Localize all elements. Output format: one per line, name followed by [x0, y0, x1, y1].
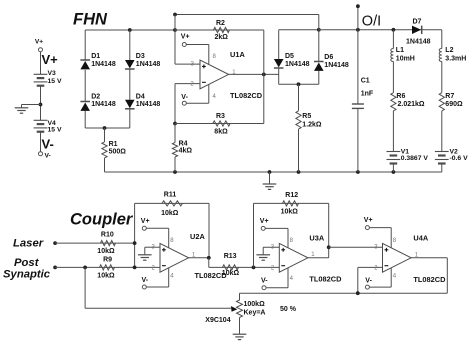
label O/I: [362, 13, 381, 29]
inductor L2 3.3mH: [439, 30, 466, 93]
pin 1 U2A: [192, 252, 196, 258]
wire V+ terminal to V3: [40, 52, 42, 75]
svg-text:1N4148: 1N4148: [91, 61, 116, 68]
resistor R3 8k feedback: [173, 113, 264, 135]
svg-text:V+: V+: [35, 39, 43, 46]
svg-text:O/I: O/I: [362, 13, 381, 29]
svg-text:4kΩ: 4kΩ: [179, 148, 193, 155]
wire U1A output node: [229, 30, 279, 124]
diode D1 1N4148: [80, 53, 115, 69]
svg-text:TL082CD: TL082CD: [309, 275, 342, 284]
pin 8 U3A: [290, 238, 294, 244]
wire D5-D6 box bottom: [279, 82, 319, 86]
node V- U4A: [365, 268, 391, 289]
pin 1 U4A: [415, 252, 419, 258]
pin 8 U2A: [170, 238, 174, 244]
svg-text:V-: V-: [142, 277, 149, 284]
wire V4 to V- terminal: [40, 132, 42, 152]
svg-text:V+: V+: [364, 217, 373, 224]
battery V4 15V: [34, 120, 62, 134]
pin 3 U2A: [152, 244, 156, 250]
wire U4A output feedback: [240, 258, 448, 295]
svg-text:U4A: U4A: [413, 233, 428, 242]
wire U2A + input: [145, 247, 160, 254]
resistor R2 2k feedback: [175, 20, 264, 41]
svg-text:1.2kΩ: 1.2kΩ: [302, 121, 322, 128]
node V- U1A: [181, 84, 209, 105]
pin 4 U2A: [170, 274, 174, 280]
svg-text:R12: R12: [285, 192, 298, 199]
wire D5-D6 box top: [279, 15, 321, 32]
svg-text:R3: R3: [216, 113, 225, 120]
inductor L1 10mH: [391, 30, 415, 93]
svg-text:50 %: 50 %: [280, 306, 297, 313]
node V+ U1A: [181, 34, 209, 65]
pin 3 U3A: [271, 244, 275, 250]
node V+ U2A: [141, 218, 169, 248]
resistor R12 10k feedback: [254, 192, 329, 267]
svg-text:C1: C1: [361, 78, 370, 85]
svg-text:D1: D1: [91, 53, 100, 60]
svg-text:1nF: 1nF: [361, 91, 374, 98]
diode D7 1N4148: [406, 18, 431, 45]
pin 1 U1A: [232, 70, 236, 76]
svg-text:D4: D4: [136, 93, 145, 100]
wire O/I top rail: [319, 28, 442, 32]
svg-text:10kΩ: 10kΩ: [97, 273, 115, 280]
svg-text:Laser: Laser: [13, 237, 44, 249]
wire D6 branch: [318, 30, 320, 85]
svg-text:U1A: U1A: [230, 50, 245, 59]
wire bottom edge of diode box: [85, 126, 130, 130]
ground (U3A + input): [256, 255, 270, 260]
resistor R6 2.021k: [391, 93, 425, 152]
svg-text:D2: D2: [91, 93, 100, 100]
svg-text:V-: V-: [181, 94, 188, 101]
pin 2 U1A: [190, 81, 194, 87]
wire U4A - input: [358, 267, 383, 293]
svg-text:8kΩ: 8kΩ: [214, 128, 228, 135]
svg-text:0.3867 V: 0.3867 V: [401, 155, 429, 162]
svg-text:V+: V+: [42, 52, 59, 67]
svg-text:1N4148: 1N4148: [91, 101, 116, 108]
svg-text:V-: V-: [261, 278, 268, 285]
svg-text:U2A: U2A: [190, 232, 205, 241]
svg-text:R5: R5: [302, 113, 311, 120]
node O/I stub: [356, 4, 360, 30]
potentiometer X9C104 100k: [205, 293, 296, 334]
svg-text:R13: R13: [224, 253, 237, 260]
resistor R4 4k: [172, 124, 192, 173]
pin 2 U3A: [271, 265, 275, 271]
op-amp U3A TL082CD: [279, 233, 342, 283]
node Laser input: [53, 241, 57, 245]
wire FHN ground rail: [105, 170, 442, 174]
svg-text:R7: R7: [445, 93, 454, 100]
resistor R13 10k: [209, 253, 279, 277]
battery V2 -0.6V: [435, 148, 468, 172]
op-amp U1A TL082CD: [200, 50, 263, 100]
svg-text:U3A: U3A: [309, 233, 324, 242]
pin 3 U1A: [191, 62, 195, 68]
svg-text:V+: V+: [260, 218, 269, 225]
node Post Synaptic input: [53, 266, 57, 270]
svg-text:10kΩ: 10kΩ: [161, 210, 179, 217]
diode D6 1N4148: [314, 54, 349, 71]
svg-text:R4: R4: [179, 140, 188, 147]
ground (U2A + input): [138, 255, 152, 260]
node V+ supply terminal: [35, 39, 43, 52]
wire right diode branch: [129, 30, 131, 128]
diode D3 1N4148: [125, 53, 160, 69]
svg-text:TL082CD: TL082CD: [413, 275, 446, 284]
svg-text:1N4148: 1N4148: [136, 101, 161, 108]
svg-text:Coupler: Coupler: [70, 210, 134, 228]
svg-text:1N4148: 1N4148: [285, 61, 310, 68]
node V- U2A: [142, 268, 169, 289]
pin 2 U4A: [374, 265, 378, 271]
svg-text:100kΩ: 100kΩ: [244, 301, 266, 308]
resistor R9 10k: [55, 257, 160, 280]
pin 3 U4A: [374, 244, 378, 250]
battery V3 15V: [34, 70, 62, 86]
capacitor C1 1nF: [352, 30, 374, 172]
svg-text:V+: V+: [141, 218, 150, 225]
svg-text:L2: L2: [445, 47, 453, 54]
title FHN: [73, 11, 108, 29]
wire U3A + input: [263, 247, 279, 254]
label V+ rail: [42, 52, 59, 67]
svg-text:2.021kΩ: 2.021kΩ: [398, 101, 425, 108]
wire U1A - input: [175, 84, 200, 124]
wire wiper from Post Synaptic: [85, 267, 237, 311]
wire D5 branch: [278, 30, 280, 85]
diode D2 1N4148: [80, 93, 115, 111]
op-amp U4A TL082CD: [383, 233, 447, 283]
pin 8 U1A: [213, 54, 217, 60]
resistor R10 10k: [55, 232, 135, 255]
node V+ U4A: [364, 217, 391, 248]
svg-text:L1: L1: [396, 47, 404, 54]
svg-text:1N4148: 1N4148: [136, 61, 161, 68]
svg-text:D6: D6: [324, 54, 333, 61]
wire U1A + input: [175, 63, 200, 65]
node V+ U3A: [260, 218, 288, 248]
label Laser: [13, 237, 44, 249]
svg-text:Synaptic: Synaptic: [3, 268, 51, 280]
pin 4 U4A: [393, 274, 397, 280]
label V- rail: [42, 137, 54, 152]
svg-text:X9C104: X9C104: [205, 317, 230, 324]
ground (FHN rail): [263, 172, 277, 189]
svg-text:R11: R11: [164, 192, 177, 199]
wire U2A output: [189, 256, 211, 260]
svg-text:R10: R10: [101, 232, 114, 239]
svg-text:10kΩ: 10kΩ: [97, 248, 115, 255]
ground (potentiometer): [233, 334, 247, 339]
svg-text:FHN: FHN: [73, 11, 108, 29]
pin 4 U1A: [213, 94, 217, 100]
svg-text:R9: R9: [103, 257, 112, 264]
node V- U3A: [261, 268, 288, 290]
svg-text:D5: D5: [285, 53, 294, 60]
label Post Synaptic: [3, 257, 51, 280]
resistor R11 10k feedback: [135, 192, 209, 258]
wire top rail of diode box: [85, 28, 177, 32]
pin 2 U2A: [152, 265, 156, 271]
ground (supply midpoint): [15, 108, 29, 113]
svg-text:R2: R2: [216, 20, 225, 27]
svg-text:D7: D7: [413, 18, 422, 25]
svg-text:3.3mH: 3.3mH: [445, 55, 466, 62]
resistor R7 690ohm: [439, 93, 463, 152]
svg-text:-0.6 V: -0.6 V: [450, 155, 469, 162]
pin 1 U3A: [311, 252, 315, 258]
pin 4 U3A: [290, 276, 294, 282]
svg-text:R1: R1: [109, 141, 118, 148]
battery V1 0.3867V: [387, 148, 429, 172]
svg-text:1N4148: 1N4148: [324, 62, 349, 69]
node V- supply terminal: [39, 152, 51, 160]
svg-text:V3: V3: [48, 70, 57, 77]
wire summing node vertical: [133, 203, 137, 269]
svg-text:10mH: 10mH: [396, 55, 415, 62]
svg-text:Key=A: Key=A: [244, 309, 266, 316]
svg-text:1N4148: 1N4148: [406, 39, 431, 46]
svg-text:Post: Post: [14, 257, 40, 269]
resistor R1 500ohm: [102, 128, 126, 172]
title Coupler: [70, 210, 134, 228]
svg-text:10kΩ: 10kΩ: [281, 209, 299, 216]
svg-text:500Ω: 500Ω: [109, 149, 127, 156]
svg-text:15 V: 15 V: [48, 127, 62, 134]
svg-text:TL082CD: TL082CD: [230, 91, 263, 100]
svg-text:V-: V-: [42, 137, 54, 152]
svg-text:10kΩ: 10kΩ: [222, 270, 240, 277]
pin 8 U4A: [393, 238, 397, 244]
svg-text:V-: V-: [365, 278, 372, 285]
resistor R5 1.2k: [296, 84, 322, 172]
svg-text:D3: D3: [136, 53, 145, 60]
wire U3A output to U4A: [308, 245, 383, 257]
svg-text:15 V: 15 V: [48, 78, 62, 85]
svg-text:690Ω: 690Ω: [445, 101, 463, 108]
wire O/I feed from input node: [173, 13, 319, 65]
diode D4 1N4148: [125, 93, 160, 108]
svg-text:R6: R6: [396, 93, 405, 100]
svg-text:V-: V-: [45, 153, 51, 160]
wire left diode branch: [84, 30, 86, 128]
op-amp U2A TL082CD: [160, 232, 227, 280]
svg-text:V+: V+: [181, 34, 190, 41]
wire V3 to V4 with ground tap: [22, 86, 43, 121]
diode D5 1N4148: [274, 53, 310, 68]
svg-text:2kΩ: 2kΩ: [215, 34, 229, 41]
